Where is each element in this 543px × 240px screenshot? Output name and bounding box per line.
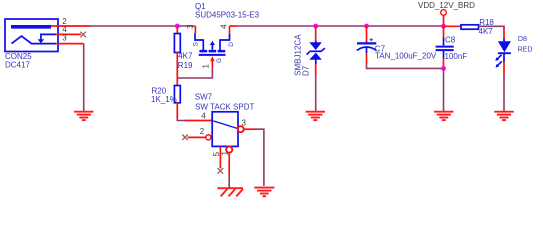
wire SW7 pin 3 to ground [256, 129, 264, 186]
svg-text:100nF: 100nF [445, 52, 468, 61]
no-connect X on pin 5 [218, 168, 224, 174]
svg-text:3: 3 [62, 33, 67, 42]
svg-text:3: 3 [186, 24, 195, 29]
pin 2 of SW7 [188, 127, 211, 140]
svg-text:TAN_100uF_20V: TAN_100uF_20V [375, 52, 437, 61]
junction at C7 [364, 24, 369, 29]
ground below D7 [306, 112, 325, 120]
diode D7 TVS [307, 41, 325, 64]
resistor R20 [174, 86, 180, 119]
pin 1 gate arrow of Q1 [201, 56, 214, 68]
no-connect X on pin 2 [182, 135, 188, 141]
pin stub D7 bottom [315, 64, 317, 75]
wire C7 bottom to C8 net [367, 64, 444, 68]
junction at C8 top [441, 24, 446, 29]
capacitor C7 [357, 38, 377, 53]
wire pin3 to ground [83, 44, 85, 111]
svg-text:C8: C8 [445, 36, 456, 45]
wire D7 to ground [315, 75, 317, 111]
transistor Q1 [195, 33, 230, 55]
svg-text:SW TACK SPDT: SW TACK SPDT [195, 103, 254, 112]
svg-text:RED: RED [518, 47, 533, 54]
wire main rail left [90, 25, 177, 27]
pin 1 of SW7 [220, 147, 232, 175]
pin stub C8 top [443, 26, 445, 37]
pin 4 of CON25 [56, 25, 81, 34]
pin 4 wire of SW7 [185, 112, 212, 121]
switch SW7 body [212, 112, 238, 147]
resistor R19 [174, 27, 180, 85]
junction at D7 [313, 24, 318, 29]
wire SW7 pin 1 to chassis ground [228, 174, 230, 188]
svg-text:SW7: SW7 [195, 93, 213, 102]
wire main rail right [237, 25, 444, 27]
wire C8 to ground [443, 68, 445, 111]
wire R20 to SW7 pin 4 [177, 119, 185, 121]
pin 3 of CON25 [56, 33, 83, 43]
svg-text:1K_1%: 1K_1% [151, 95, 177, 104]
resistor R18 [461, 25, 479, 29]
pin stub C8 bottom [443, 58, 445, 67]
wire R18 to D8 [479, 26, 505, 28]
svg-text:VDD_12V_BRD: VDD_12V_BRD [418, 1, 475, 10]
svg-text:1: 1 [220, 151, 229, 156]
pin 3 of SW7 [238, 118, 256, 132]
ground below D8 [494, 112, 513, 120]
chassis ground below SW7 [218, 188, 244, 196]
pin stub D7 top [315, 26, 317, 41]
svg-text:SUD45P03-15-E3: SUD45P03-15-E3 [195, 10, 260, 19]
junction at C8 bottom [441, 66, 446, 71]
wire VDD junction to R18 [444, 25, 462, 27]
wire gate of Q1 to R19/R20 [177, 68, 212, 79]
pin stub C7 bottom [366, 53, 368, 64]
pin stub D8 top [503, 27, 505, 39]
capacitor C8 [436, 38, 454, 59]
svg-text:4: 4 [201, 112, 206, 121]
ground at SW7 pin 3 [254, 188, 274, 197]
svg-text:4K7: 4K7 [178, 51, 193, 60]
pin 2 of CON25 [51, 17, 90, 26]
svg-text:4K7: 4K7 [479, 27, 494, 36]
svg-text:S: S [193, 41, 200, 46]
junction at R19 [175, 24, 180, 29]
connector CON25 body [5, 19, 58, 52]
pin stub C7 top [366, 26, 368, 42]
svg-text:R19: R19 [178, 61, 193, 70]
svg-text:D: D [228, 42, 235, 47]
svg-text:1: 1 [201, 63, 210, 68]
wire drain stub to rail [230, 25, 238, 27]
pin 4 of Q1 [219, 24, 229, 33]
svg-text:DC417: DC417 [5, 60, 30, 69]
svg-text:2: 2 [200, 127, 205, 136]
pin stub D8 bottom [503, 62, 505, 76]
svg-text:G: G [216, 58, 223, 63]
power port VDD_12V_BRD [441, 10, 447, 26]
svg-text:4: 4 [219, 24, 228, 29]
wire D8 to ground [503, 76, 505, 111]
diode D8 LED [495, 39, 511, 68]
no-connect X on pin 4 [80, 32, 86, 38]
pin 5 of SW7 [212, 147, 221, 168]
pin 3 of Q1 [186, 24, 195, 33]
ground below CON25 [74, 112, 93, 120]
wire junction to Q1 source [177, 25, 195, 27]
svg-text:D8: D8 [518, 36, 527, 43]
svg-text:3: 3 [242, 118, 247, 127]
ground below C8 [434, 112, 453, 120]
svg-text:D7: D7 [301, 65, 310, 76]
